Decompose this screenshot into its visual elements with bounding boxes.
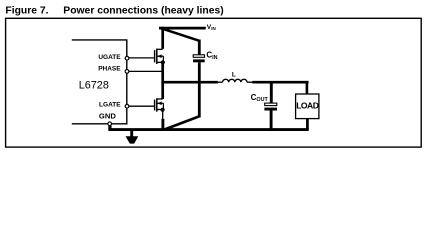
junction dot source Q1 [161,60,165,64]
capacitor CIN [193,51,218,63]
svg-text:GND: GND [99,111,116,120]
body-source link [162,103,164,109]
pin UGATE [125,56,129,60]
channel bar [156,98,158,111]
COUT bottom plate (solid) [264,108,277,111]
svg-text:UGATE: UGATE [98,54,121,61]
wire diagonal VIN to CIN [161,28,199,41]
inductor L [218,79,253,82]
svg-text:VIN: VIN [207,24,216,31]
gate bar [154,50,156,62]
body stub [157,55,164,57]
svg-text:Figure 7.: Figure 7. [5,5,48,16]
IC U1 L6728 box (open on left) [72,40,127,124]
wire UGATE gate [129,57,155,59]
svg-text:LGATE: LGATE [99,102,121,109]
svg-text:CIN: CIN [206,51,217,61]
wire LOAD bottom drop [306,118,309,129]
figure border frame [6,18,422,147]
svg-text:L: L [232,72,236,79]
wire drain bus Q1 [161,27,164,49]
gate bar [154,100,156,111]
transistor Q2 (low-side MOSFET) [155,98,165,112]
body arrow [157,54,161,58]
transistor Q1 (high-side MOSFET) [155,49,165,65]
svg-text:LOAD: LOAD [296,101,318,111]
pin PHASE [125,70,129,74]
wire phase bus (Q1 source to Q2 drain) [161,62,164,99]
heavy power path [108,27,308,131]
wire COUT bottom lead [270,110,273,130]
channel bar [156,49,158,64]
wire phase line to inductor [161,81,217,84]
wire PHASE [129,70,163,72]
svg-text:PHASE: PHASE [98,66,121,73]
ground [126,130,139,144]
svg-text:COUT: COUT [251,93,269,103]
drain stub [157,48,163,50]
drain stub [157,98,163,100]
wire VIN rail [159,27,206,30]
body arrow [157,102,161,106]
source stub [157,109,163,111]
wire COUT top lead [270,82,273,103]
capacitor COUT [251,93,277,111]
COUT top plate (outlined) [265,103,277,106]
wire CIN bottom lead [198,62,201,117]
wire LOAD top drop [306,81,309,94]
CIN top plate (outlined) [193,55,204,58]
wire ground rail [108,128,308,131]
pin GND [108,122,112,126]
wire inductor to output [252,81,308,84]
body stub [157,102,164,104]
junction dot source Q2 [161,108,165,112]
wire diagonal CIN to ground rail [165,117,199,130]
svg-text:Power connections (heavy lines: Power connections (heavy lines) [63,5,223,16]
wire GND pin drop [108,124,111,130]
wire Q2 source to ground rail (heavy) [161,119,164,131]
wire CIN top lead [198,40,201,56]
pin LGATE [125,104,129,108]
LOAD box [296,94,319,119]
body-source link [162,56,164,62]
CIN bottom plate (solid) [193,59,205,62]
wire LGATE gate [129,105,155,107]
svg-text:L6728: L6728 [79,80,109,92]
wire Q2 source lead (thin) [162,110,164,119]
source stub [157,61,163,63]
